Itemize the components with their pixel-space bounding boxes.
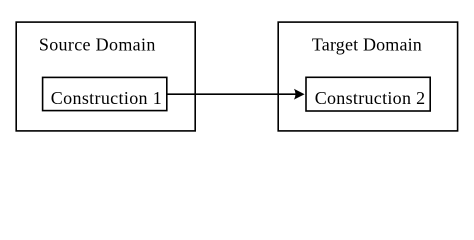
svg-text:Construction 2: Construction 2 (315, 88, 426, 108)
box Source Domain (16, 22, 195, 131)
arrowhead (294, 89, 305, 100)
wire arrow shaft from Construction 1 to Construction 2 (167, 93, 301, 95)
svg-text:Source Domain: Source Domain (39, 34, 156, 54)
box Target Domain (278, 22, 457, 131)
svg-text:Construction 1: Construction 1 (51, 88, 162, 108)
inner box Construction 1 (43, 77, 167, 110)
inner box Construction 2 (306, 77, 430, 111)
svg-text:Target Domain: Target Domain (312, 34, 422, 54)
